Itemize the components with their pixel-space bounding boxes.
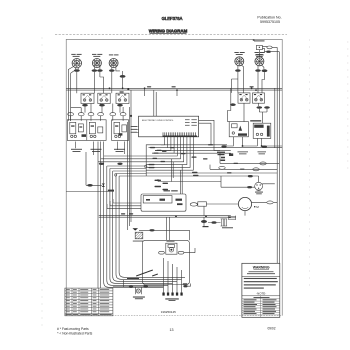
- svg-text:WARNING: WARNING: [253, 265, 270, 269]
- wire relay drops to bus: [226, 137, 282, 146]
- wire lug to bus: [122, 71, 124, 88]
- wire drops from element E3: [112, 67, 120, 94]
- infinite switch S3: [116, 93, 129, 103]
- wire label ovals right column: [260, 162, 266, 165]
- door lock motor A1: [166, 243, 177, 254]
- svg-text:13: 13: [170, 328, 174, 332]
- junction node element bus: [175, 216, 207, 218]
- svg-text:# * Fast-moving Parts: # * Fast-moving Parts: [57, 327, 89, 331]
- terminal lug probe top: [248, 175, 253, 177]
- junction node relay bus: [242, 145, 263, 147]
- warning box: [242, 263, 280, 317]
- label right front surface unit: [91, 149, 102, 152]
- wire lug to switch S5: [232, 72, 265, 93]
- terminal lugs below switch row: [82, 104, 88, 107]
- connector oval loop right: [178, 251, 184, 254]
- svg-text:5995375105: 5995375105: [260, 20, 280, 24]
- wire drops below surface unit blocks: [76, 142, 125, 162]
- terminal lug harness right: [262, 146, 267, 148]
- label near bus lug: [203, 226, 209, 227]
- terminal lug right of comb P5: [183, 285, 187, 287]
- connector oval motor right: [267, 201, 273, 204]
- wire harness fan-out from U1: [98, 136, 193, 170]
- label fan switch: [238, 151, 249, 154]
- wire drops from element E5: [258, 65, 264, 93]
- terminal lug right of E3: [120, 75, 126, 78]
- color code table rows: [242, 296, 280, 317]
- DLB relay box K4: [253, 123, 271, 138]
- terminal lug lamp right: [143, 285, 148, 287]
- label left front surface unit: [71, 149, 82, 152]
- label warmer surface unit: [114, 149, 125, 152]
- block A contact mark: [82, 134, 87, 137]
- terminal lug lamp left: [129, 286, 134, 288]
- terminal lug fan line left: [99, 163, 104, 165]
- wire diagonal tags: [136, 270, 158, 277]
- terminal lug wire left: [87, 184, 93, 187]
- wire main double bus L2: [66, 89, 282, 91]
- junction node T: [133, 228, 139, 230]
- terminal lug left of comb H3: [211, 221, 216, 224]
- wire drops from element E2: [94, 66, 100, 93]
- svg-text:WIRING DIAGRAM: WIRING DIAGRAM: [149, 28, 188, 33]
- wire branch vertical x274.8: [274, 88, 276, 148]
- infinite switch S4: [238, 93, 250, 103]
- wire left riser bundle: [98, 156, 185, 288]
- wire plugs into block: [71, 116, 124, 121]
- terminal box right: [198, 202, 207, 206]
- surface element left front E1: [71, 54, 81, 68]
- terminal lug probe left: [247, 186, 252, 188]
- surface element right front E2: [92, 54, 102, 68]
- wire L1 supply right vertical: [276, 47, 278, 263]
- wire drops from element E4: [238, 65, 244, 93]
- fan switch relay box K3: [229, 122, 248, 137]
- svg-text:Publication No.: Publication No.: [257, 16, 281, 20]
- label group oven sensor left: [217, 152, 233, 161]
- wire harness horizontals: [146, 145, 282, 176]
- electronic oven control U1: [139, 116, 199, 137]
- wire k1 left feed horizontals: [107, 199, 141, 209]
- margin registration dots left: [42, 38, 43, 326]
- label wire bottom: [108, 190, 114, 192]
- wire probe jack leads: [221, 176, 275, 187]
- connector oval loop left: [159, 251, 165, 254]
- terminal lug under E1: [74, 69, 80, 72]
- connector comb H3: [221, 219, 228, 226]
- terminal lugs under E2: [92, 69, 97, 72]
- wire right column horizontals: [210, 153, 279, 173]
- terminal lug below P9: [266, 51, 271, 53]
- terminal lug below S5: [257, 106, 263, 109]
- label dlb relay: [258, 151, 267, 154]
- wire mid-left horizontals: [66, 152, 108, 192]
- wire U1 left stubs: [137, 127, 138, 133]
- svg-text:* < Non-Illustrated Parts: * < Non-Illustrated Parts: [57, 332, 92, 336]
- wire lug to loop corner: [188, 284, 191, 287]
- wire right switches drop: [233, 103, 267, 123]
- oven door switch loop: [142, 240, 189, 284]
- meat probe jack J1: [255, 182, 263, 191]
- wire E2 lug jog: [100, 77, 104, 93]
- wire switch row interconnect: [71, 104, 124, 113]
- warning subtitle lines: [247, 271, 275, 274]
- U1 left side stub labels: [131, 126, 138, 133]
- label motor M: [254, 205, 259, 209]
- wire terminal box to bus: [203, 206, 205, 215]
- wire code labels scattered: [153, 147, 253, 177]
- wiring legend table: [65, 288, 113, 316]
- svg-text:ELECTRONIC OVEN CONTROL: ELECTRONIC OVEN CONTROL: [142, 120, 174, 122]
- terminal lug harness left: [221, 145, 226, 147]
- connector plugs row above surface unit block: [68, 113, 74, 116]
- terminal lug right column: [264, 106, 270, 109]
- label below comb P5: [165, 298, 179, 301]
- wire oven light to L1 bus: [259, 47, 279, 57]
- wire lug drop: [203, 217, 205, 227]
- junction node riser: [114, 165, 147, 176]
- label oven lamp: [133, 297, 145, 300]
- terminal lug on element bus: [201, 220, 207, 223]
- wire bus branch x230: [228, 88, 231, 121]
- wire lug comb H3: [208, 222, 221, 224]
- footer fast moving parts: [57, 327, 93, 335]
- relay contact marks: [146, 199, 183, 206]
- label above relay K1: [164, 190, 178, 191]
- label above K4: [250, 120, 261, 121]
- U1 connector pin header P10: [163, 132, 198, 136]
- wire door area risers: [164, 258, 182, 287]
- terminal lug fan line mid: [117, 163, 122, 165]
- wire feeds into loop top: [167, 217, 170, 240]
- header publication number: [257, 16, 281, 25]
- connector ladder comb H2: [229, 216, 236, 220]
- convection fan motor M1: [238, 197, 251, 215]
- comb P5 pin risers: [164, 279, 182, 292]
- page fold dashed line: [55, 34, 287, 36]
- color code table text: [244, 299, 277, 314]
- svg-text:GLEF378A: GLEF378A: [162, 16, 183, 21]
- wire main double bus L1: [66, 87, 282, 89]
- wire feeds from harness to relays K1 K2: [158, 159, 221, 194]
- wire label oval R1: [149, 229, 154, 231]
- terminal lug under E4: [235, 69, 240, 72]
- label door lock: [167, 240, 175, 243]
- schematic frame: [66, 39, 282, 315]
- connector plug P9: [267, 46, 272, 49]
- oven lamp DS1: [135, 288, 141, 295]
- infinite switch S2: [98, 93, 110, 103]
- warning body text lines: [244, 278, 278, 289]
- terminal comb P5 bottom: [162, 293, 182, 296]
- surface element warmer E3: [109, 54, 119, 67]
- resistor R1 hatched: [135, 232, 143, 239]
- surface element left rear E5: [255, 52, 265, 66]
- terminal lug under E3: [109, 69, 114, 72]
- wire N supply right vertical: [278, 52, 280, 263]
- wire center riser bundle x127-131: [128, 90, 131, 230]
- label probe jack: [255, 192, 263, 195]
- bake broil relay enclosure K1: [141, 194, 186, 211]
- U1 right side pin labels: [185, 119, 197, 125]
- svg-text:09/02: 09/02: [268, 327, 276, 331]
- wire code labels on bus: [120, 86, 254, 92]
- label cluster harness to risers: [155, 180, 169, 191]
- oven light switch S6 top right: [253, 39, 265, 57]
- surface unit terminal block A: [67, 120, 106, 141]
- svg-text:-NOTE-: -NOTE-: [256, 291, 266, 295]
- infinite switch S5: [253, 93, 265, 103]
- label R1: [133, 240, 144, 243]
- wire drops from element E1: [68, 67, 78, 121]
- wire R1 right: [139, 230, 190, 240]
- infinite switch S1: [81, 93, 94, 103]
- terminal lug under E5: [255, 69, 260, 72]
- label loop bottom right: [183, 283, 188, 284]
- svg-text:316250145: 316250145: [161, 310, 176, 314]
- wire sensor bend: [199, 120, 220, 150]
- margin registration dots right: [309, 40, 348, 286]
- junction node bus: [109, 87, 257, 117]
- wire lamp leads: [113, 280, 164, 287]
- junction bowtie mark: [102, 184, 105, 188]
- legend table cell text: [66, 289, 112, 315]
- harness wire labels: [149, 144, 214, 176]
- wire element bus double: [99, 216, 231, 218]
- label above lamp: [127, 278, 139, 279]
- frame bottom dashed edge: [66, 315, 282, 317]
- surface element right rear E4: [234, 52, 244, 66]
- wire motor leads: [206, 202, 277, 204]
- terminal lug left of S4: [230, 103, 236, 106]
- wire loop right stub: [184, 248, 195, 253]
- label below comb H3: [222, 226, 233, 229]
- wire feed into U1 top: [145, 88, 177, 116]
- surface unit terminal block B: [112, 120, 129, 141]
- label dashes on element bus: [121, 213, 133, 214]
- color code table header: [254, 296, 270, 299]
- connector oval right of K1: [190, 203, 197, 206]
- terminal lug right of E5: [262, 69, 268, 72]
